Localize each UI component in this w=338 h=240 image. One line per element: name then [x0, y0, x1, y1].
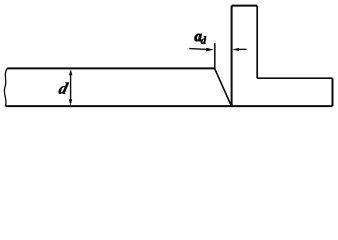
vertical plate left edge	[231, 6, 233, 106]
a_d left arrowhead	[206, 48, 214, 52]
label d	[58, 83, 69, 94]
vertical plate top edge	[232, 5, 258, 7]
a_d left dimension line	[189, 48, 207, 51]
label a_d	[195, 34, 202, 41]
left plate break line	[4, 68, 7, 106]
right arm top edge	[257, 77, 332, 79]
bevel (chamfer) of left plate	[215, 68, 232, 105]
left plate top edge	[7, 67, 214, 69]
dimension d lower arrowhead	[69, 99, 72, 105]
a_d right dimension line	[239, 48, 247, 50]
bottom edge (left plate and right arm, continuous)	[5, 105, 332, 107]
a_d right arrowhead	[232, 48, 239, 51]
dimension d upper arrowhead	[69, 69, 72, 75]
a_d extension line	[214, 43, 216, 68]
vertical plate right edge	[256, 6, 258, 79]
dimension d line	[70, 72, 72, 104]
right arm right edge	[332, 78, 334, 106]
